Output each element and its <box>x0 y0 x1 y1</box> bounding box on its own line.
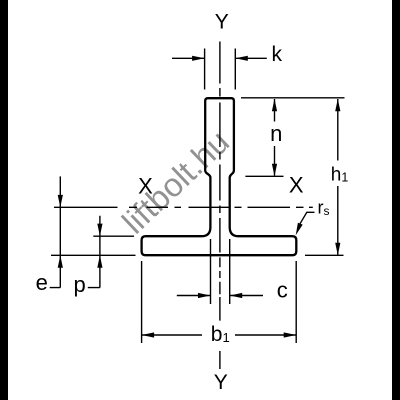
svg-text:X: X <box>138 174 153 199</box>
svg-text:p: p <box>73 272 85 297</box>
T-profile outline <box>142 98 297 255</box>
dimension e <box>50 176 61 287</box>
dimension p <box>88 216 100 288</box>
dimension k <box>172 57 267 59</box>
dimension n <box>274 99 276 176</box>
svg-text:c: c <box>277 277 288 302</box>
svg-text:X: X <box>289 172 304 197</box>
b1 extension lines <box>142 261 297 343</box>
left edge bar <box>0 0 8 400</box>
right edge bar <box>392 0 400 400</box>
r_s leader arrowhead <box>296 223 303 236</box>
dimension h1 <box>337 99 339 255</box>
svg-text:k: k <box>272 43 283 66</box>
flange bottom extension right <box>305 254 344 256</box>
centerline Y axis (vertical dash-dot) <box>219 42 221 370</box>
X-X axis (horizontal dash-dot) <box>54 206 313 208</box>
flange top extension left <box>93 235 134 237</box>
n bottom extension line <box>245 175 283 177</box>
dimension b1 <box>142 334 297 336</box>
svg-text:n: n <box>270 121 282 146</box>
r_s leader line <box>300 212 315 224</box>
svg-text:Y: Y <box>214 371 228 394</box>
extension line from stem top to right <box>241 97 345 99</box>
svg-text:Y: Y <box>215 11 229 34</box>
flange bottom extension left <box>51 254 136 256</box>
k extension lines <box>205 49 236 90</box>
dimension c <box>177 295 263 297</box>
c extension lines <box>211 239 230 304</box>
svg-text:e: e <box>36 270 48 295</box>
